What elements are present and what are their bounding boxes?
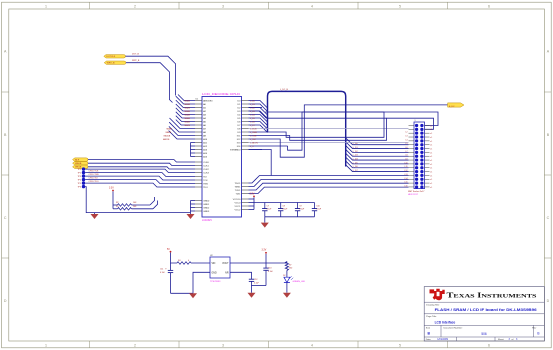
resistor R2 10K [113,197,155,206]
svg-text:L14: L14 [405,178,408,180]
svg-text:LCD_DECODE CPLD: LCD_DECODE CPLD [202,92,241,96]
wire EXPAND0 stub [249,149,263,151]
svg-text:L7: L7 [406,151,408,153]
capacitor C8 0.1uF [278,203,288,217]
svg-text:x1: x1 [430,183,432,185]
wire TMS1 to connector row14 [249,179,409,186]
svg-text:1: 1 [45,4,47,8]
net labels on U1 right pins [250,100,258,148]
svg-text:R7: R7 [289,264,291,266]
wire loop B upper from pin D3 [249,111,267,118]
svg-text:Page Title:: Page Title: [426,315,437,318]
svg-text:1/19/2009: 1/19/2009 [437,338,448,341]
svg-text:CPLD TMS: CPLD TMS [89,174,100,176]
svg-text:5V: 5V [167,249,170,251]
svg-text:CLK3: CLK3 [203,172,209,174]
svg-text:VOUT: VOUT [222,263,229,265]
svg-text:TCK1: TCK1 [235,190,241,192]
net labels on bundle L_D0-L_D7 [353,143,359,172]
svg-text:TDI1: TDI1 [236,193,242,195]
svg-text:x1: x1 [430,164,432,166]
svg-text:C: C [547,216,550,220]
tag WRT_B [104,61,126,64]
svg-text:6: 6 [488,4,490,8]
svg-text:TP2: TP2 [78,173,81,175]
svg-text:x1: x1 [430,141,432,143]
svg-text:DOT_B: DOT_B [132,53,140,55]
wire TP2 to TDI [85,173,195,177]
svg-text:TP1: TP1 [78,169,81,171]
svg-text:B: B [537,332,539,336]
svg-text:L9: L9 [406,159,408,161]
svg-text:MA10B: MA10B [164,134,171,137]
svg-text:0.1uF: 0.1uF [254,282,260,284]
svg-text:TDO: TDO [203,187,208,189]
svg-text:C8: C8 [282,206,284,208]
svg-text:L_CSB: L_CSB [250,135,257,137]
capacitor C12 0.1uF [249,276,260,293]
connector J1 contacts [415,124,424,189]
svg-text:4: 4 [311,344,313,348]
wire D9 staircase to loop A [249,112,385,137]
svg-text:4: 4 [311,4,313,8]
svg-text:C7: C7 [267,206,269,208]
svg-text:R2: R2 [116,202,118,204]
svg-text:VIN: VIN [212,263,216,265]
svg-text:x1: x1 [430,175,432,177]
ground at U1 GND pins [190,213,192,214]
svg-text:GREEN_LED: GREEN_LED [293,281,306,283]
svg-text:C9: C9 [299,206,301,208]
bus entries from U1 data pins [249,101,268,133]
svg-text:L4: L4 [406,139,408,141]
wire 3.3V stub [265,254,267,263]
wire pin D2 stub [249,107,263,109]
svg-text:L5: L5 [406,143,408,145]
svg-text:5: 5 [399,4,401,8]
svg-text:Document Number:: Document Number: [444,327,463,330]
svg-text:GND: GND [212,272,217,274]
wire WEB to CLK1 [88,163,195,165]
svg-text:x1: x1 [430,145,432,147]
svg-text:LC4032V: LC4032V [202,219,212,222]
tag DOTCLK [104,55,126,58]
label C11 [160,268,166,274]
wire TDI1 to connector row16 [249,187,409,193]
svg-text:AMODE0: AMODE0 [203,99,213,102]
svg-text:L12: L12 [405,170,408,172]
wire C11 bottom to ground [171,292,194,294]
svg-text:x1: x1 [430,137,432,139]
svg-text:C: C [4,216,7,220]
svg-text:CPLD TDO: CPLD TDO [89,181,100,183]
wire TP3 to TCK [85,176,195,180]
svg-text:CPLD TCK: CPLD TCK [89,170,100,172]
svg-text:L13: L13 [405,174,408,176]
test points TP1-TP6 [78,167,86,188]
TI logo [430,289,445,300]
svg-text:TP4: TP4 [78,180,81,182]
svg-text:ALE: ALE [75,159,80,162]
wire IO4 drop to bottom row [249,150,272,176]
capacitor C13 4.7uF [263,263,273,286]
ground at TP6 [94,213,96,214]
capacitor C10 0.1uF [312,203,322,217]
svg-text:GND2: GND2 [203,207,210,209]
ground at C12 [248,293,256,298]
power 5V [170,251,172,253]
svg-text:MA5B: MA5B [185,117,191,120]
power 3.3V near TPs [112,190,114,192]
svg-text:TPS76933: TPS76933 [210,281,221,283]
resistor R3 10K [113,201,158,211]
capacitor C11 4.7uF [165,263,173,293]
svg-text:C10: C10 [316,206,319,208]
wire D10 staircase to loop B [249,118,387,140]
wire loop A right drop to connector pin2 [384,112,438,126]
svg-text:x1: x1 [430,133,432,135]
wire VCC pins tie [249,197,255,209]
svg-text:L_DC_B: L_DC_B [280,89,288,91]
wire D8 grey net to connector [249,128,409,130]
svg-text:3: 3 [222,4,224,8]
svg-text:x1: x1 [430,156,432,158]
svg-text:MA3B: MA3B [185,110,191,113]
svg-text:CLK1: CLK1 [203,165,209,167]
svg-text:0.1uF: 0.1uF [299,209,305,211]
svg-text:LCD Interface: LCD Interface [435,321,456,325]
wire GND pin to ground [193,272,210,293]
wire TP6 to ground [85,187,94,213]
svg-text:L_RST: L_RST [250,139,257,141]
svg-text:VCC1: VCC1 [234,206,241,208]
LED D2 GREEN_LED [283,271,306,284]
tag WEB [73,162,89,165]
svg-text:x1: x1 [430,129,432,131]
svg-text:TMS1: TMS1 [234,186,241,188]
svg-text:C13: C13 [268,267,271,269]
svg-text:x1: x1 [430,171,432,173]
net labels MA bus [163,99,191,141]
wire TDO1 to connector row13 [249,176,409,184]
svg-text:4.7uF: 4.7uF [160,272,166,274]
wire TP1 to CLK3 [85,169,195,172]
svg-text:3.3V: 3.3V [109,188,114,190]
svg-text:NR: NR [225,272,229,274]
wire VOUT to 3.3V node [230,262,287,264]
svg-text:330: 330 [289,268,292,270]
svg-text:R3: R3 [116,206,118,208]
wire ALE to CLK0 [88,160,195,162]
svg-text:MA8B: MA8B [167,127,173,130]
svg-text:MA0B: MA0B [185,99,191,102]
svg-text:0.1uF: 0.1uF [316,209,322,211]
wire IO4b grey net to connector [249,142,409,144]
svg-text:TP6: TP6 [78,187,81,189]
svg-text:0.1uF: 0.1uF [282,209,288,211]
svg-text:GND0: GND0 [203,200,210,202]
connector J1 right pin stubs and labels [425,125,433,188]
svg-text:506: 506 [481,332,487,336]
svg-text:L3: L3 [406,136,408,138]
svg-text:D: D [547,299,550,303]
svg-text:WE0B: WE0B [75,163,82,165]
svg-text:L11: L11 [405,166,408,168]
svg-text:R4: R4 [178,260,180,262]
power 3.3V at U1 VCC [253,196,255,198]
svg-text:6: 6 [488,344,490,348]
U1 pins left side [195,99,213,212]
svg-text:x1: x1 [430,125,432,127]
svg-text:0.1uF: 0.1uF [267,209,273,211]
svg-text:MA11B: MA11B [163,138,170,141]
connector J1 body [414,122,425,189]
svg-text:GND3: GND3 [203,211,210,213]
tag E_DC [448,103,464,107]
capacitor C7 0.1uF [262,203,272,217]
svg-text:MA1B: MA1B [185,103,191,106]
ground at regulator [189,293,197,298]
svg-text:L2: L2 [406,132,408,134]
wire U1 GND pins tie [191,201,196,213]
svg-text:TCK: TCK [203,180,208,182]
svg-text:WRT_B: WRT_B [107,63,115,65]
svg-text:MA9B: MA9B [166,131,172,134]
svg-text:TEXAS INSTRUMENTS: TEXAS INSTRUMENTS [447,292,537,300]
svg-text:D: D [4,299,7,303]
svg-text:D2: D2 [283,275,285,277]
wire loop A upper riser [288,112,384,150]
svg-text:CLK2: CLK2 [203,169,209,171]
U1 pins right side [230,100,248,211]
wire R4 to VIN [191,262,210,264]
wire ground rail under resistors [95,212,191,214]
svg-text:L10: L10 [405,162,408,164]
title block [424,287,544,341]
svg-text:1: 1 [45,344,47,348]
wire tie on A11-A15 pins [191,143,196,157]
svg-text:x1: x1 [430,160,432,162]
svg-text:TP3: TP3 [78,176,81,178]
svg-text:CLK0: CLK0 [203,162,209,164]
svg-text:TP5: TP5 [78,183,81,185]
wire C13 to NR cap rail [252,285,267,287]
svg-text:L6: L6 [406,147,408,149]
svg-text:3.3V: 3.3V [262,250,267,252]
svg-text:VCCO0: VCCO0 [233,199,241,201]
wire loop B right drop to connector pin4 [387,118,434,129]
svg-text:WRT_B: WRT_B [132,60,140,62]
bus entries to connector rows [346,138,409,172]
wire DOTCLK to bus [126,56,176,95]
svg-text:L_BLON: L_BLON [250,142,258,144]
regulator U2 body [210,255,230,283]
wire NR pin to C12 [230,272,252,275]
wire WRT_B to bus [126,63,173,103]
svg-text:MA7B: MA7B [185,124,191,127]
svg-text:SMT Socket 2x17: SMT Socket 2x17 [408,190,425,193]
svg-text:1: 1 [415,120,416,122]
svg-text:FLASH / SRAM / LCD IF board fo: FLASH / SRAM / LCD IF board for DK-LM3S9… [435,308,537,312]
svg-text:3: 3 [222,344,224,348]
svg-text:E_DC: E_DC [449,106,455,108]
svg-text:C12: C12 [254,279,257,281]
wire 5V to R4 [171,253,178,263]
svg-text:TDO1: TDO1 [234,183,241,185]
wire IO2 riser to tag E_DC [249,105,448,157]
tag OEB [73,165,89,168]
svg-text:0: 0 [188,260,189,262]
svg-text:L_RWB: L_RWB [250,132,258,134]
svg-text:C11: C11 [160,268,163,270]
svg-text:VCC0: VCC0 [234,202,241,204]
ground at decoupling caps [264,217,266,223]
wire 3.3V to resistors [112,191,114,208]
svg-text:MA4B: MA4B [185,113,191,116]
op-amp U1 CPLD LCD_DECODE body [196,92,242,222]
power 3.3V at regulator [265,252,267,254]
wire OEB to CLK2 [88,167,195,169]
svg-text:L_DCB: L_DCB [250,128,257,130]
svg-text:TDI: TDI [203,176,207,178]
svg-text:4.7uF: 4.7uF [268,271,274,273]
svg-text:x1: x1 [430,152,432,154]
svg-text:x1: x1 [430,187,432,189]
svg-text:L8: L8 [406,155,408,157]
svg-text:2: 2 [134,344,136,348]
svg-text:MA2B: MA2B [185,106,191,109]
bus L_D data bus [268,91,346,166]
svg-text:Sheet: Sheet [498,338,504,341]
svg-text:Date:: Date: [426,338,432,341]
tag ALE [73,158,89,161]
wire decoupling rail bottom [265,216,315,218]
wire IO3 to loop A riser [249,145,288,147]
svg-text:MA6B: MA6B [185,120,191,123]
resistor R4 [177,260,191,264]
resistor R7 330 [285,262,292,271]
svg-text:x1: x1 [430,148,432,150]
svg-text:DOTCLK: DOTCLK [106,56,115,58]
wire fan into U1 left address pins [169,95,195,140]
svg-text:5: 5 [399,344,401,348]
svg-text:3.3V: 3.3V [250,194,255,196]
svg-text:L15: L15 [405,182,408,184]
wire TCK1 to connector row15 [249,183,409,190]
svg-text:GND1: GND1 [203,204,210,206]
svg-text:x1: x1 [430,168,432,170]
svg-text:Drawing Title:: Drawing Title: [426,304,440,307]
svg-text:HDR 2X17: HDR 2X17 [408,194,419,196]
connector J1 row net labels [405,132,408,188]
svg-text:2: 2 [134,4,136,8]
svg-text:CPLD TDI: CPLD TDI [89,177,99,179]
wire TP4 to TMS [85,180,195,184]
wire LED to ground [286,282,288,292]
svg-text:L16: L16 [405,185,408,187]
wire decoupling rail top [254,202,315,204]
svg-text:EXPAND0: EXPAND0 [230,148,241,151]
svg-text:TMS: TMS [203,183,208,185]
connector J1 left pin stubs [409,126,415,187]
svg-text:VCC2: VCC2 [234,209,241,211]
ground at LED [283,293,291,298]
capacitor C9 0.1uF [295,203,305,217]
wire TP5 to TDO [85,183,195,187]
svg-text:x1: x1 [430,179,432,181]
